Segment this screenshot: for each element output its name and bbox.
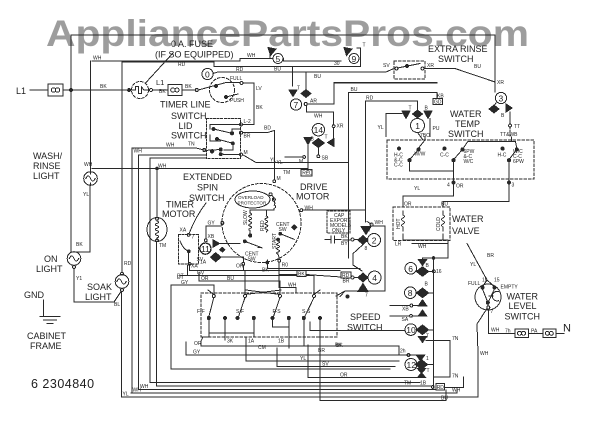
svg-text:BD: BD	[264, 126, 271, 132]
wire diamond to SB	[317, 148, 319, 156]
svg-text:16: 16	[482, 278, 488, 284]
svg-text:WASH/: WASH/	[33, 151, 63, 161]
wire triangle to motor cent sw	[220, 243, 241, 245]
svg-text:T: T	[409, 106, 412, 112]
wire circle1 right leg to box	[418, 119, 431, 141]
svg-text:WH: WH	[491, 328, 500, 334]
annotation pointer line	[146, 53, 173, 83]
svg-text:RINSE: RINSE	[33, 161, 61, 171]
svg-text:BK: BK	[341, 234, 348, 240]
svg-text:RD: RD	[178, 62, 186, 68]
svg-text:GD: GD	[434, 99, 442, 105]
svg-text:6PW: 6PW	[513, 159, 524, 165]
svg-text:7: 7	[491, 309, 494, 315]
svg-text:Y1: Y1	[76, 276, 82, 282]
wire down to on light	[73, 251, 75, 254]
svg-text:1B: 1B	[278, 339, 285, 345]
svg-text:C-C: C-C	[440, 153, 449, 159]
svg-text:RD: RD	[366, 96, 374, 102]
circle 6	[405, 263, 417, 275]
motor internal rail	[250, 210, 274, 216]
svg-text:B: B	[426, 263, 430, 269]
svg-text:LIGHT: LIGHT	[36, 264, 63, 274]
wire rinse switch to right vertical	[424, 69, 495, 83]
svg-text:12: 12	[407, 360, 417, 370]
connector arrow right of 3	[506, 104, 512, 112]
svg-text:7h: 7h	[505, 329, 511, 335]
svg-text:OR: OR	[340, 373, 348, 379]
svg-text:W/W: W/W	[415, 152, 426, 158]
svg-text:PROTECTOR: PROTECTOR	[238, 201, 267, 206]
svg-text:4: 4	[447, 183, 450, 189]
svg-text:MOTOR: MOTOR	[296, 192, 330, 202]
temp sw entry from circle 1	[419, 137, 425, 149]
temp sw contact group 2	[443, 147, 446, 150]
wire fuse to line fuse	[63, 89, 131, 91]
svg-text:BL: BL	[114, 302, 120, 308]
wire right column vertical	[433, 258, 435, 387]
temp sw contact group 1	[397, 147, 400, 150]
svg-text:LIGHT: LIGHT	[33, 171, 60, 181]
wire switch bottom to left bundle	[477, 309, 487, 398]
connector diamond left of circle 4	[358, 273, 368, 282]
wire bundle run y355 into circle12 connector	[186, 342, 417, 355]
wire cluster bottom to speed box	[340, 291, 345, 297]
circle 7	[290, 99, 301, 110]
svg-text:L1: L1	[156, 78, 164, 87]
svg-text:16: 16	[436, 269, 442, 275]
motor WH terminal to right	[300, 209, 303, 212]
lamp on light	[67, 252, 81, 266]
svg-text:RD: RD	[437, 385, 445, 391]
wire outer loop left/top	[71, 35, 495, 90]
svg-text:0 A. FUSE: 0 A. FUSE	[171, 39, 213, 49]
svg-text:SLOW: SLOW	[243, 210, 249, 225]
svg-text:YL: YL	[378, 125, 384, 131]
svg-text:WATER: WATER	[452, 214, 484, 224]
svg-text:R0: R0	[282, 263, 289, 269]
svg-text:TN: TN	[188, 142, 195, 148]
wire from L1 node down to wash light	[70, 90, 72, 252]
water valve box	[393, 207, 450, 241]
svg-text:GY: GY	[208, 221, 216, 227]
svg-text:YL: YL	[270, 158, 276, 164]
svg-text:CABINET: CABINET	[27, 331, 67, 341]
svg-text:TIMER LINE: TIMER LINE	[160, 100, 211, 110]
wire lid sw second exit	[139, 155, 207, 390]
svg-text:SWITCH: SWITCH	[171, 131, 207, 141]
wire BU run feeds F-S	[199, 273, 280, 295]
connector diamond right of 10	[416, 325, 428, 335]
svg-text:OR: OR	[456, 184, 464, 190]
svg-text:LV: LV	[256, 86, 262, 92]
svg-text:M: M	[277, 176, 281, 182]
svg-text:GY: GY	[181, 280, 189, 286]
extra rinse switch	[394, 61, 425, 79]
wires below spin switch	[180, 265, 188, 275]
noise filter blocks	[515, 329, 529, 338]
svg-text:RED: RED	[260, 220, 266, 231]
wire bundle run y389.5	[139, 389, 437, 391]
svg-text:BK: BK	[76, 242, 83, 248]
svg-text:WH: WH	[418, 244, 427, 250]
circle 9	[349, 54, 359, 64]
svg-text:BU: BU	[314, 74, 321, 80]
svg-text:1A: 1A	[248, 339, 255, 345]
pointer line from SPIN SWITCH label to box	[189, 203, 206, 233]
svg-text:SWITCH: SWITCH	[189, 193, 225, 203]
connector triangle left of 1	[402, 111, 410, 119]
connector diamond right of 8	[416, 288, 428, 298]
solenoid COLD coil	[442, 211, 445, 231]
wire on light down and right to soak light	[74, 268, 121, 302]
wire bundle run y346	[224, 346, 399, 355]
svg-text:FULL: FULL	[468, 281, 480, 287]
wire lid sw BR right to drive motor M line	[243, 131, 275, 133]
svg-text:SOAK: SOAK	[87, 282, 112, 292]
svg-text:SPIN: SPIN	[197, 183, 218, 193]
connector diamond left of 5	[268, 48, 276, 56]
svg-text:WH: WH	[247, 53, 256, 59]
svg-text:BR: BR	[487, 253, 494, 259]
node RD/BR boxed left of 4	[351, 276, 354, 279]
svg-text:OR: OR	[404, 202, 412, 208]
wire bundle run y400.5	[320, 349, 446, 401]
wire loop2 left vertical	[90, 61, 92, 172]
circle 0	[202, 68, 213, 79]
svg-text:1B: 1B	[420, 381, 427, 387]
svg-text:L1: L1	[16, 86, 26, 96]
svg-text:WH: WH	[140, 384, 149, 390]
svg-text:T: T	[363, 43, 366, 49]
wire M vertical down to drive motor	[273, 131, 275, 181]
wire left leg down to M and TM	[285, 145, 308, 172]
svg-text:TT&WB: TT&WB	[500, 132, 518, 138]
wire run RD y100.8	[366, 101, 418, 110]
wire down to node TT	[509, 112, 511, 124]
wire lid sw third exit	[150, 158, 420, 383]
svg-text:SV: SV	[383, 63, 390, 69]
svg-text:XB: XB	[402, 307, 409, 313]
svg-text:7N: 7N	[452, 374, 459, 380]
svg-text:B: B	[501, 113, 505, 119]
svg-text:DRIVE: DRIVE	[300, 182, 328, 192]
timer line switch contact	[195, 89, 198, 92]
svg-text:OR: OR	[236, 264, 244, 270]
speed sw crossing wires	[208, 290, 320, 295]
svg-text:SB: SB	[322, 156, 329, 162]
svg-text:7: 7	[365, 293, 368, 299]
fuse F1 (line fuse holder)	[48, 84, 63, 96]
svg-text:BR: BR	[343, 279, 350, 285]
wire zigzag between 2 and 4	[353, 245, 363, 272]
svg-text:WH: WH	[314, 114, 323, 120]
svg-text:6 2304840: 6 2304840	[31, 377, 95, 391]
wire lid sw bottom left to left bundle	[132, 148, 206, 393]
svg-text:WH: WH	[133, 388, 142, 394]
svg-text:T: T	[427, 368, 430, 374]
motor slow coil	[249, 210, 252, 231]
wire BK run	[267, 268, 360, 270]
circle 2	[368, 234, 381, 247]
svg-text:BR: BR	[318, 348, 325, 354]
wire timer motor feed	[156, 169, 158, 218]
svg-text:HOT: HOT	[396, 218, 402, 229]
svg-text:WH: WH	[480, 351, 489, 357]
bottom terminal	[487, 304, 489, 306]
fuse 20A (if so equipped) dashed circle	[132, 82, 149, 99]
junction dot	[128, 89, 131, 92]
circle 11	[200, 243, 211, 254]
svg-text:ON: ON	[44, 254, 58, 264]
wire diamond to motor bottom	[221, 256, 243, 258]
svg-text:VALVE: VALVE	[452, 226, 480, 236]
svg-text:GY: GY	[193, 350, 201, 356]
svg-text:SPEED: SPEED	[350, 312, 381, 322]
svg-text:YL: YL	[470, 262, 476, 268]
connector triangle node T	[289, 90, 297, 97]
svg-text:SWITCH: SWITCH	[171, 111, 207, 121]
svg-text:BR: BR	[244, 134, 251, 140]
wire feed 10	[310, 322, 405, 331]
svg-text:START: START	[272, 233, 278, 249]
svg-text:SWITCH: SWITCH	[448, 129, 484, 139]
svg-text:T: T	[297, 86, 300, 92]
svg-text:MOTOR: MOTOR	[162, 209, 196, 219]
svg-text:TIMER: TIMER	[166, 200, 194, 210]
wire vertical x348 down	[348, 92, 350, 258]
svg-text:2h: 2h	[400, 349, 406, 355]
svg-text:3: 3	[512, 183, 515, 189]
motor cent sw left	[243, 240, 246, 243]
node AR junction	[304, 103, 307, 106]
speed switch box	[201, 293, 337, 337]
svg-text:WH: WH	[93, 56, 102, 62]
overload protector oval	[235, 191, 270, 208]
svg-text:2: 2	[372, 236, 377, 246]
svg-text:GND: GND	[24, 290, 45, 300]
svg-text:FRAME: FRAME	[30, 341, 62, 351]
svg-text:15: 15	[494, 278, 500, 284]
svg-text:SW: SW	[248, 257, 256, 263]
svg-text:0: 0	[205, 70, 210, 80]
svg-text:SV: SV	[197, 257, 204, 263]
svg-text:BU: BU	[441, 396, 448, 402]
connector triangle below 10	[418, 337, 426, 343]
wire switch to noise filter	[488, 309, 515, 334]
svg-text:TM: TM	[159, 243, 166, 249]
wire vertical x365 down	[365, 101, 367, 222]
motor GY terminal	[221, 222, 224, 225]
wire bundle run y369	[171, 285, 390, 369]
svg-text:OVERLOAD: OVERLOAD	[238, 195, 264, 200]
svg-text:COLD: COLD	[436, 217, 442, 231]
svg-text:LR: LR	[395, 242, 402, 248]
wire BR from top down to water level switch, forking	[467, 244, 494, 287]
wire WH run y112	[307, 106, 334, 126]
wire bundle run y397	[122, 396, 479, 398]
connector diamond below 14	[312, 139, 324, 148]
circle 8	[405, 287, 417, 299]
wire GV run feeds S-F	[190, 265, 245, 294]
connector diamond left of circle 2	[358, 236, 368, 245]
wire run YL y113.7	[386, 113, 402, 115]
svg-text:SWITCH: SWITCH	[438, 54, 474, 64]
water temp switch box	[387, 140, 534, 179]
node XB line and triangle	[410, 304, 413, 307]
extended spin switch box	[178, 234, 198, 264]
wire soak light down to bottom bundle	[121, 291, 123, 397]
wire loop3 corner	[122, 62, 214, 67]
wire valve WH down right side	[423, 244, 449, 260]
svg-text:SA: SA	[402, 317, 409, 323]
wire bundle run y361	[246, 352, 399, 361]
svg-text:3: 3	[499, 94, 504, 104]
connector block rect	[434, 341, 451, 378]
svg-text:B: B	[425, 282, 429, 288]
svg-text:YL: YL	[83, 192, 89, 198]
wire loop2 top	[92, 59, 341, 62]
connector diamond below 3	[489, 105, 499, 113]
circle 12	[405, 359, 417, 371]
terminal L1 block	[150, 89, 153, 92]
svg-text:LEVEL: LEVEL	[509, 301, 537, 311]
svg-text:WH: WH	[166, 143, 175, 149]
wire valve bottoms join WH out	[403, 234, 448, 240]
svg-text:BK: BK	[185, 84, 192, 90]
wire bundle run y377.5	[308, 345, 417, 378]
connector triangle left of diamond	[304, 138, 312, 145]
wire cap to circle2 terminal	[343, 239, 351, 241]
svg-text:XA: XA	[191, 264, 198, 270]
svg-text:30: 30	[334, 61, 340, 67]
motor red coil	[265, 216, 268, 232]
svg-text:9: 9	[352, 54, 357, 64]
connector triangle above diamond	[361, 227, 371, 235]
svg-text:T: T	[368, 228, 371, 234]
motor start coil	[277, 238, 280, 241]
svg-text:4: 4	[372, 273, 377, 283]
diaphragm symbol	[489, 291, 499, 301]
connector triangle left toward 14	[328, 139, 335, 147]
svg-text:OR: OR	[194, 341, 202, 347]
svg-text:BY: BY	[341, 241, 348, 247]
wire run BU y92.3	[349, 92, 437, 98]
node XR2	[332, 125, 335, 128]
svg-text:WH: WH	[84, 162, 93, 168]
svg-text:10: 10	[406, 325, 416, 335]
wire bundle run y386 TM line	[157, 385, 433, 387]
lid switch internals	[240, 123, 243, 126]
wires below speed switch	[201, 333, 224, 346]
connector diamond right of 12	[415, 360, 427, 370]
svg-text:11: 11	[201, 244, 210, 254]
svg-text:WH: WH	[158, 164, 167, 170]
svg-text:EMPTY: EMPTY	[501, 285, 519, 291]
timer motor TM	[147, 218, 167, 242]
connector triangle below 4	[358, 284, 368, 292]
svg-text:LIGHT: LIGHT	[85, 292, 112, 302]
wire L1 to fuse	[30, 89, 48, 91]
wire GY run feeds F-F	[171, 285, 214, 295]
svg-text:PU: PU	[433, 126, 440, 132]
connector triangle right of 11	[213, 240, 220, 248]
svg-text:XA: XA	[180, 228, 187, 234]
svg-text:TM: TM	[283, 170, 290, 176]
connector diamond above 7	[301, 90, 311, 98]
svg-text:F-F: F-F	[197, 309, 205, 315]
svg-text:BK: BK	[256, 105, 263, 111]
node WH above circle 2	[370, 223, 373, 226]
svg-text:H-C: H-C	[498, 153, 507, 159]
svg-text:N: N	[563, 323, 571, 335]
wire rect outline around 2-4	[336, 226, 385, 296]
svg-text:8: 8	[365, 246, 368, 252]
svg-text:1: 1	[426, 356, 429, 362]
svg-text:YL: YL	[300, 356, 306, 362]
svg-text:TM: TM	[404, 381, 411, 387]
svg-text:RED: RED	[302, 171, 313, 177]
svg-text:EXTENDED: EXTENDED	[183, 172, 233, 182]
wire OR run	[243, 270, 340, 272]
circle 3	[495, 92, 506, 103]
svg-text:7: 7	[192, 235, 195, 241]
wire wash light down	[74, 185, 90, 252]
wire bundle run y393	[131, 390, 457, 393]
svg-text:BU: BU	[441, 202, 448, 208]
wire 9 to rinse sw node	[357, 48, 361, 67]
svg-text:XB: XB	[208, 234, 215, 240]
svg-text:7: 7	[294, 100, 299, 110]
svg-text:LID: LID	[179, 121, 194, 131]
svg-text:XR: XR	[337, 124, 344, 130]
wire timer motor down to bundle	[156, 242, 158, 386]
wire lid sw M diagonal to YL run	[243, 155, 349, 163]
wire LV down from timer line switch	[243, 83, 254, 121]
node SA line and triangle	[410, 314, 413, 317]
connector triangle above 6	[418, 260, 426, 266]
svg-text:BU: BU	[474, 64, 481, 70]
svg-text:W/C: W/C	[464, 159, 474, 165]
connector triangle right of 1	[424, 111, 432, 119]
svg-text:6: 6	[408, 264, 413, 274]
svg-text:RD: RD	[124, 261, 132, 267]
svg-text:EXTRA RINSE: EXTRA RINSE	[428, 44, 488, 54]
capacitor C1	[325, 236, 341, 243]
svg-text:BU: BU	[351, 87, 358, 93]
svg-text:RD: RD	[236, 67, 244, 73]
connector diamond left of 9	[344, 48, 352, 56]
svg-text:FULL: FULL	[230, 76, 242, 82]
solenoid HOT coil	[402, 211, 405, 231]
svg-text:1: 1	[415, 121, 420, 131]
wire BK from timer line sw down into lid sw	[243, 121, 255, 125]
svg-text:BK: BK	[298, 272, 305, 278]
circle 14	[312, 124, 324, 136]
circle 4	[368, 271, 381, 284]
svg-text:XR: XR	[497, 80, 504, 86]
connector diamond right of 6	[416, 267, 428, 277]
circle 1	[411, 119, 425, 133]
lamp soak light	[115, 275, 129, 289]
wire bundle run y366.5	[277, 348, 395, 367]
svg-text:TT: TT	[514, 124, 520, 130]
wire outer right vertical	[494, 35, 496, 83]
svg-text:WATER: WATER	[450, 109, 482, 119]
svg-text:7N: 7N	[452, 336, 459, 342]
wire XB riser to motor GY	[206, 226, 221, 239]
svg-text:T: T	[325, 135, 328, 141]
